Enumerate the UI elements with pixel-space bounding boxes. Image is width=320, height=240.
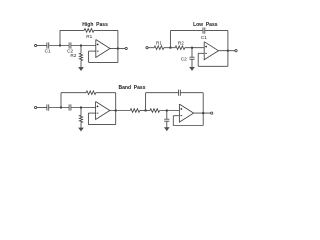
svg-text:C1: C1	[201, 35, 207, 40]
svg-text:R2: R2	[70, 53, 76, 58]
svg-text:R1: R1	[156, 40, 162, 45]
svg-text:R2: R2	[178, 40, 184, 45]
svg-text:C2: C2	[181, 57, 187, 62]
svg-text:Low Pass: Low Pass	[193, 22, 218, 28]
svg-text:C1: C1	[45, 49, 51, 54]
svg-text:R1: R1	[86, 34, 92, 39]
svg-text:Band Pass: Band Pass	[119, 85, 146, 91]
svg-text:High Pass: High Pass	[82, 22, 108, 28]
